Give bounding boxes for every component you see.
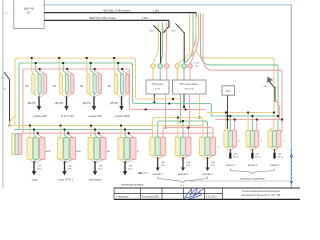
svg-text:МВч: МВч [172,31,176,33]
probe 3 terminal pin [273,149,275,159]
wire-to arrow M2 [181,157,185,171]
wire-to arrow row2 #3 [93,161,98,176]
svg-text:1 Ва: 1 Ва [142,16,148,20]
connector row2 XS3 (yellow/green/red pins) [88,125,106,160]
svg-text:(Сч-М: (Сч-М [194,63,200,65]
svg-text:+5В: +5В [233,154,237,156]
frame top blue line [44,4,292,6]
label at arrow row2 #4 [128,166,132,171]
connector mini far-left [12,134,22,155]
return yellow wire [207,112,274,114]
band red wire [145,109,206,111]
label ЩВУ [24,7,34,11]
branch diagonal into tree C [269,82,275,89]
svg-text:10-Л: 10-Л [155,88,160,90]
connector row2 XS4 (yellow/green/red pins) [118,125,136,160]
svg-text:защитное соединение: защитное соединение [240,177,265,180]
bus row1 green [19,63,131,130]
destination label row1 #2 [61,115,74,118]
connector X4 converge leads [116,94,127,98]
label on L1 [103,8,159,12]
connector M1 (yellow/green/red pins) [150,137,166,156]
connector M3 converge leads [202,156,213,160]
svg-text:ЗМ: ЗМ [25,86,28,88]
destination label row1 #4 [114,115,130,118]
socket group 2 (3 ring contacts) [175,64,192,69]
svg-text:490/700+ ГУВ (ч/мин): 490/700+ ГУВ (ч/мин) [103,8,131,12]
riser red to probe 2 [256,119,258,133]
svg-text:+4В: +4В [211,162,215,164]
wire-to arrow row1 #3 [92,97,97,111]
label at arrow row2 #1 [37,166,41,171]
bus row1 yellow [15,58,134,126]
svg-text:1 Ва: 1 Ва [153,8,159,12]
band green wire [152,103,212,116]
leads socket1 to meter box 1 [153,68,167,80]
riser yellow to probe 1 [225,112,227,133]
probe 2 wire capsules [246,131,259,148]
power supply box ЩВУ [14,0,44,29]
label at arrow M1 [161,162,165,167]
svg-text:Железова-М2Б: Железова-М2Б [142,196,159,199]
bundle B yellow wire [178,14,190,64]
label at arrow row1 #3 [82,103,91,105]
label right of XS2 [76,150,81,153]
svg-text:+5В: +5В [37,166,41,168]
svg-text:(Р1): (Р1) [37,169,41,171]
label защитное соединение [240,177,265,180]
svg-text:Д-: Д- [137,151,139,153]
feeder wire L1 (top black bus) [44,12,196,14]
probe 2 terminal pin [251,149,253,159]
loop red wire [203,14,282,136]
title text cell1 [116,196,129,199]
bundle A green wire [160,22,162,64]
destination label probe 2 [248,165,258,167]
label left of probes [217,147,221,149]
connector row1 X1 (yellow/green/red pins) [31,57,47,93]
svg-text:-ДВ (Р5): -ДВ (Р5) [110,103,119,105]
row1 red bus right drop [128,69,153,110]
wire-to arrow row1 #4 [119,97,124,111]
bracket under монтаж group [158,177,208,183]
title block outer lines [114,188,300,199]
label at tree C [264,86,268,88]
label left of X3 [80,86,83,88]
destination label M3 [203,174,214,176]
svg-text:ЩВУ-АВ: ЩВУ-АВ [24,7,34,11]
connector row2 XS2 (yellow/green/red pins) [58,125,76,160]
label left of X4 [108,86,111,88]
destination label row1 #3 [88,115,103,118]
label Пульт [226,91,232,93]
bundle B green wire [184,14,193,64]
svg-text:(Р1.1): (Р1.1) [233,157,239,159]
label left of X1 [25,86,28,88]
box2 green drop [180,94,182,122]
probe 2 converge leads [248,147,257,151]
svg-text:7М): 7М) [195,66,199,68]
label right of XS4 [137,151,139,153]
reference leader line [189,180,291,182]
connector M2 (yellow/green/red pins) [175,137,191,156]
title text cell2 [142,196,159,199]
svg-text:+5В: +5В [128,166,132,168]
box2 red drop wire [189,94,191,127]
destination label row2 #3 [89,178,102,181]
pult drop black wire [227,95,229,129]
riser green to probe 1 [229,115,231,133]
svg-text:монтаж 1: монтаж 1 [153,174,164,176]
svg-text:сигнал 2: сигнал 2 [248,165,258,167]
wire-to arrow row2 #2 [62,161,67,176]
probe 1 converge leads [226,147,235,151]
connector XS2 converge leads [60,160,73,164]
destination label row2 #4 [121,183,144,186]
label БП [27,11,31,14]
svg-text:2М: 2М [3,89,6,91]
svg-text:АСА: АСА [76,150,81,153]
connector row1 X4 (yellow/green/red pins) [113,57,129,93]
svg-text:+4В: +4В [186,162,190,164]
connector XS3 converge leads [91,160,104,164]
label at arrow M2 [186,162,190,167]
bundle A red wire [165,22,168,64]
label at arrow row1 #1 [27,103,36,105]
svg-text:+суммы АВ2: +суммы АВ2 [33,115,48,118]
ground label [1,78,5,80]
probe 3 wire capsules [268,131,281,148]
svg-text:-ДВ (Р5): -ДВ (Р5) [27,103,36,105]
title block verticals [114,188,223,199]
control box Пульт [222,86,235,95]
band yellow wire [154,98,182,100]
label on L2 [89,16,148,20]
wire-to arrow row2 #1 [32,161,37,176]
svg-text:МВч: МВч [150,31,154,33]
ground junction [9,124,11,126]
wire-to arrow M3 [206,157,210,171]
label right of XS3 [107,150,110,153]
feeder L1 end hook [195,13,197,18]
bus row2 yellow [10,125,204,127]
frame right blue line [290,5,292,188]
svg-text:ЩЗУ: ЩЗУ [4,13,9,15]
riser yellow to probe 2 [247,112,249,133]
tree C red companion wire [275,101,280,120]
meter box 1 [146,80,169,94]
svg-text:ок W ТТ (Е): ок W ТТ (Е) [61,115,74,118]
destination label M1 [153,174,164,176]
svg-text:автомодулей. Больших пр. Н.Б.,: автомодулей. Больших пр. Н.Б., МЗ [242,194,281,197]
connector row1 X3 (yellow/green/red pins) [86,57,102,93]
return red wire [215,119,282,121]
label at arrow row1 #4 [110,103,119,105]
destination label row2 #2 [57,178,73,181]
label at tree A [150,31,154,33]
riser green to probe 2 [251,115,253,133]
label at arrow M3 [211,162,215,167]
connector M1 converge leads [152,156,163,160]
svg-text:монтаж 3: монтаж 3 [203,174,214,176]
tree C black wire [274,87,276,102]
svg-text:ПВ 16-4Г: ПВ 16-4Г [184,88,194,90]
meter box 2 text [180,84,199,90]
label at arrow row2 #3 [98,166,102,171]
svg-text:ЗВ: ЗВ [108,86,111,88]
row1 yellow bus right drop [134,58,155,99]
svg-text:АСА: АСА [46,150,51,153]
gray pointer arrow [267,77,274,85]
meter box 2 [173,80,207,94]
bus row2 green [14,129,152,131]
svg-text:ЩС: ЩС [1,78,5,80]
destination label M2 [178,174,189,176]
svg-text:сигнал 1: сигнал 1 [226,165,236,167]
wire-to arrow M1 [156,157,160,171]
bundle B red wire [190,14,197,59]
destination label probe 1 [226,165,236,167]
bracket under сигнал group [230,169,274,174]
wire-to arrow row2 #4 [123,161,128,176]
svg-text:-ДВ (Р5): -ДВ (Р5) [82,103,91,105]
cluster green feed bus [158,120,208,137]
ground lead-in diagonal [4,72,9,79]
title date cell [206,196,217,199]
svg-text:сигнал 3: сигнал 3 [270,165,280,167]
leads socket2 to meter box 2 [177,68,190,80]
reference arrow left [138,172,149,174]
svg-text:+ реле А ПК 3: + реле А ПК 3 [57,178,73,181]
tree B black wire [183,32,185,63]
cluster yellow feed bus [152,117,203,138]
connector M3 (yellow/green/red pins) [200,137,216,156]
svg-text:ИВч: ИВч [264,86,268,88]
bus row1 red [23,69,128,133]
label right of probe 1 capsules [238,141,241,143]
probe 3 converge leads [270,147,279,151]
socket group 1 (3 ring contacts) [151,64,169,69]
label at tree B [172,31,176,33]
connector row1 X2 (yellow/green/red pins) [58,57,74,93]
feeder wire L2 (second black bus) [44,19,169,21]
junction dots right band [273,112,283,121]
label at probe 1 [233,154,239,159]
connector row2 XS1 (yellow/green/red pins) [27,125,45,160]
box2 black drop with junction [183,94,185,108]
svg-text:ИП в зоне: ИП в зоне [152,84,163,86]
meter box 1 text [152,84,163,90]
connector X3 converge leads [88,94,99,98]
svg-text:+суммы АВ(1): +суммы АВ(1) [114,115,130,118]
svg-text:(Р2): (Р2) [211,165,215,167]
probe 1 terminal pin [229,149,231,159]
connector X2 converge leads [61,94,72,98]
svg-text:(Р1.1): (Р1.1) [255,157,261,159]
label right of probe 2 capsules [260,141,263,143]
wire-to arrow row1 #2 [64,97,69,111]
svg-text:Схема подключения интерфейсных: Схема подключения интерфейсных [242,190,281,193]
svg-text:монтаж 2: монтаж 2 [178,174,189,176]
return green wire [212,115,279,117]
feeder L2 corner down [163,20,169,33]
destination label row1 #1 [33,115,48,118]
connector XS4 converge leads [121,160,134,164]
bus row2 red [19,132,213,134]
probe 1 wire capsules [224,131,237,148]
row1 green bus right drop [131,63,153,104]
corner label ЩЗУ [4,13,20,15]
ground wire vertical [3,80,9,126]
loop yellow wire [196,14,274,134]
svg-text:БП: БП [27,11,31,14]
title drawing name [242,190,281,197]
cluster red feed bus [163,127,213,138]
destination label row2 #1 [32,178,38,181]
svg-text:5.02.2013: 5.02.2013 [206,196,217,199]
svg-text:(Р1): (Р1) [68,169,72,171]
bundle B pink wire [190,14,199,64]
svg-text:+5В: +5В [255,154,259,156]
label left of X2 [53,86,56,88]
box1 red drop wire [165,94,167,129]
svg-text:ДА: ДА [107,150,110,153]
svg-text:+5В: +5В [68,166,72,168]
signature scribble [184,188,204,199]
svg-text:Отверждал: Отверждал [116,196,129,199]
svg-text:маленькая: маленькая [89,178,102,181]
branch diagonal into tree A [154,26,161,33]
svg-text:маленькая автомод.: маленькая автомод. [121,183,144,186]
svg-text:ЗМ: ЗМ [53,86,56,88]
svg-text:+5В: +5В [277,154,281,156]
svg-text:подр: подр [32,178,38,181]
label right of socket group 2 [194,63,200,68]
svg-text:(Р2): (Р2) [186,165,190,167]
label at probe 2 [255,154,261,159]
svg-text:-ДВ (Р5): -ДВ (Р5) [55,103,64,105]
wire-to arrow row1 #1 [37,97,42,111]
svg-text:ИП в зоне помещ.: ИП в зоне помещ. [180,84,199,86]
svg-text:(Р1): (Р1) [128,169,132,171]
label right of XS1 [46,150,51,153]
svg-text:+4В: +4В [161,162,165,164]
svg-text:+суммы АВ7: +суммы АВ7 [88,115,103,118]
riser red to probe 1 [234,119,236,133]
tree A black wire [160,32,162,64]
blue dashed route arrow [290,149,293,185]
connector XS1 converge leads [30,160,43,164]
svg-text:(Р1.1): (Р1.1) [277,157,283,159]
label at arrow row1 #2 [55,103,64,105]
frame left border line [2,0,4,188]
branch diagonal into tree B [176,24,185,34]
box1 black drop with junction [153,94,156,105]
reference label 4.3 [181,185,185,187]
svg-text:+5В: +5В [98,166,102,168]
label right of probe 3 capsules [282,141,285,143]
label at probe 3 [277,154,283,159]
destination label probe 3 [270,165,280,167]
box2 yellow drop [199,94,201,118]
svg-text:(Р2): (Р2) [161,165,165,167]
svg-text:(Р1): (Р1) [98,169,102,171]
row2 yellow left bend [10,114,15,126]
bundle A yellow wire [153,22,159,64]
loop green wire [201,14,279,135]
label at arrow row2 #2 [68,166,72,171]
connector X1 converge leads [33,94,44,98]
connector M2 converge leads [178,156,189,160]
svg-text:490/П7н ГУВ (следн): 490/П7н ГУВ (следн) [89,16,116,20]
